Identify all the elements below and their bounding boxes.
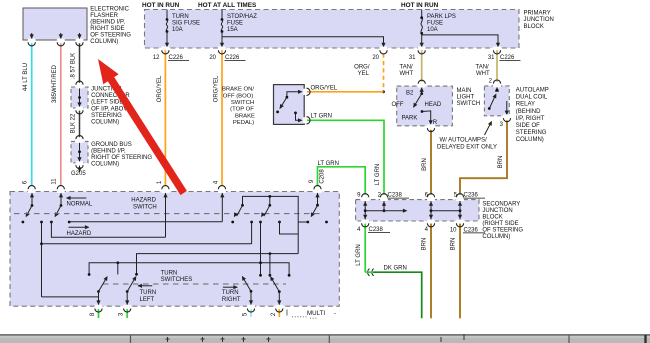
label HAZARD SWITCH: [131, 198, 156, 211]
label TURN LEFT with left arrow: [137, 284, 156, 304]
label AUTOLAMP DUAL COIL RELAY (BEHIND I/P, RIGHT SIDE OF STEERING COLUMN): [516, 88, 549, 144]
hazard pole 1 (entry 6): [22, 193, 43, 224]
hazard mechanical link (dashed): [14, 213, 322, 215]
svg-text:HOT IN RUN: HOT IN RUN: [142, 2, 180, 9]
pin 12 C226 label: [153, 55, 189, 61]
svg-text:PARK LPS: PARK LPS: [427, 14, 456, 20]
svg-text:ORG/YEL: ORG/YEL: [213, 75, 219, 102]
svg-text:SWITCHES: SWITCHES: [161, 277, 193, 283]
svg-text:LT GRN: LT GRN: [375, 164, 381, 185]
svg-text:31: 31: [488, 55, 495, 61]
svg-text:-: -: [334, 310, 336, 317]
svg-text:LIGHT: LIGHT: [457, 95, 475, 101]
power distribution box (fuse box, dashed): [145, 10, 520, 49]
svg-text:COLUMN): COLUMN): [90, 39, 118, 45]
svg-text:I/P, RIGHT: I/P, RIGHT: [516, 116, 545, 122]
svg-text:HAZARD: HAZARD: [131, 198, 156, 204]
svg-text:PRIMARY: PRIMARY: [524, 11, 551, 17]
svg-text:HOT IN RUN: HOT IN RUN: [401, 2, 439, 9]
label LT GRN (BOO output): [311, 114, 332, 120]
tiny wire-top marks on strip: [166, 334, 465, 342]
svg-text:G205: G205: [71, 171, 86, 177]
svg-text:12: 12: [153, 55, 160, 61]
svg-text:C238: C238: [388, 193, 403, 199]
svg-text:TURN: TURN: [140, 290, 157, 296]
hazard line C and feed to turn-left pivot: [40, 222, 252, 297]
wire ORG/YEL (circuit 20) vertical: [221, 50, 223, 185]
label TAN/ WHT (left): [400, 65, 414, 78]
svg-text:TURN: TURN: [172, 14, 189, 20]
svg-text:FLASHER: FLASHER: [90, 13, 118, 19]
svg-text:STEERING: STEERING: [91, 113, 122, 119]
svg-text:HAZARD: HAZARD: [67, 231, 92, 237]
label BRN (rot, left bottom): [422, 238, 428, 251]
svg-text:(TOP OF: (TOP OF: [230, 107, 254, 113]
label DK GRN: [384, 266, 407, 272]
pin 31 label (park lps drop): [409, 55, 416, 61]
label 2 (rot): [271, 312, 277, 316]
svg-text:C226: C226: [169, 55, 184, 61]
svg-text:4: 4: [357, 227, 361, 233]
electronic flasher box: [23, 8, 87, 40]
svg-text:COLUMN): COLUMN): [482, 234, 510, 240]
wire .8 57 BLK (flasher to junction connector): [79, 43, 81, 83]
label MAIN LIGHT SWITCH: [457, 88, 481, 107]
svg-text:COLUMN): COLUMN): [91, 120, 119, 126]
label 3 (autolamp pin): [500, 122, 504, 128]
label 10 C236 (bottom): [450, 227, 485, 233]
svg-text:5: 5: [243, 312, 249, 316]
connector cups with border gaps: [28, 39, 511, 313]
wire ORG/YEL dashed drop to BOO output: [382, 54, 385, 94]
svg-text:LEFT: LEFT: [140, 297, 155, 303]
svg-text:GROUND BUS: GROUND BUS: [91, 142, 132, 148]
wire TAN/WHT to autolamp relay: [496, 50, 498, 81]
svg-text:RIGHT OF STEERING: RIGHT OF STEERING: [91, 155, 152, 161]
wire ORG/YEL from BOO output to dashed drop: [307, 91, 384, 93]
wire 44 LT BLU vertical: [31, 43, 33, 185]
svg-text:STEERING: STEERING: [516, 130, 547, 136]
label NORMAL with left arrow: [66, 196, 93, 207]
label TAN/ WHT (right): [476, 65, 490, 78]
wire TAN/WHT to main light switch: [421, 50, 423, 82]
brake on/off (BOO) switch box: [274, 85, 305, 125]
svg-text:BRAKE ON/: BRAKE ON/: [222, 87, 254, 93]
svg-text:10A: 10A: [172, 27, 183, 33]
svg-text:W/ AUTOLAMPS/: W/ AUTOLAMPS/: [440, 137, 488, 143]
svg-text:B2: B2: [406, 91, 414, 97]
wire DK GRN stub (pin 3): [126, 309, 128, 318]
label C208 (rot): [319, 169, 325, 184]
label 1 (rot, entry): [157, 180, 163, 184]
exit cups at multifunction switch bottom: [0, 0, 1, 1]
svg-text:YEL: YEL: [358, 71, 370, 77]
svg-text:AUTOLAMP: AUTOLAMP: [516, 88, 549, 94]
label JUNCTION CONNECTOR (LEFT SIDE OF I/P, ABOVE STEERING COLUMN): [91, 87, 131, 126]
svg-text:WHT: WHT: [476, 71, 490, 77]
svg-text:BLOCK: BLOCK: [482, 215, 502, 221]
svg-text:ORG/YEL: ORG/YEL: [157, 75, 163, 102]
svg-text:TURN: TURN: [161, 270, 178, 276]
label 4 (rot, entry): [214, 180, 220, 184]
label 6 (rot, entry): [23, 180, 29, 184]
svg-text:PEDAL): PEDAL): [233, 120, 254, 126]
label 4 (C236 bottom): [425, 227, 429, 233]
svg-text:WHT: WHT: [400, 71, 414, 77]
svg-text:(BEHIND I/P,: (BEHIND I/P,: [90, 19, 125, 25]
svg-text:OF STEERING: OF STEERING: [482, 228, 523, 234]
ground G205: [71, 166, 86, 178]
turn switch mechanical link (dashed): [103, 283, 286, 285]
wire BRN main light switch R to C238 pin 6: [430, 130, 432, 195]
svg-text:ELECTRONIC: ELECTRONIC: [90, 6, 129, 12]
svg-text:LT GRN: LT GRN: [311, 114, 332, 120]
svg-text:9: 9: [309, 179, 315, 183]
label 6 (C236 top): [425, 193, 429, 199]
svg-text:SWITCH: SWITCH: [457, 101, 481, 107]
wire BLK 22 (junction connector to ground bus): [79, 111, 81, 138]
wire LT GRN from C238 pin 4 down: [364, 224, 366, 273]
svg-text:SIDE OF: SIDE OF: [516, 123, 540, 129]
svg-text:BRN: BRN: [498, 156, 504, 169]
svg-text:LT GRN: LT GRN: [356, 244, 362, 265]
svg-text:RELAY: RELAY: [516, 102, 535, 108]
svg-text:TAN/: TAN/: [400, 65, 414, 71]
label 44 LT BLU (rot): [23, 63, 29, 91]
svg-text:STOP/HAZ: STOP/HAZ: [227, 14, 257, 20]
label MULTI-FUNCTION SWITCH (clipped): [287, 310, 336, 319]
svg-text:HOT AT ALL TIMES: HOT AT ALL TIMES: [198, 2, 257, 9]
svg-text:ORG/YEL: ORG/YEL: [311, 85, 338, 91]
svg-text:2: 2: [489, 78, 493, 84]
label HOT AT ALL TIMES: [198, 2, 257, 9]
label HOT IN RUN (left): [142, 2, 180, 9]
svg-text:385WHT/RED: 385WHT/RED: [52, 64, 58, 103]
svg-text:RIGHT SIDE: RIGHT SIDE: [90, 26, 124, 32]
wire ORG stub (pin 2): [278, 309, 280, 317]
wire BRN autolamp pin3 to C236 pin 5: [460, 120, 507, 194]
junction connector box: [71, 87, 88, 108]
svg-text:RIGHT: RIGHT: [222, 297, 241, 303]
wire DK GRN to bottom: [365, 272, 422, 318]
svg-text:ORG/: ORG/: [354, 65, 370, 71]
svg-text:31: 31: [409, 55, 416, 61]
svg-text:4: 4: [425, 227, 429, 233]
label LT GRN (rot, at C238 pin 2): [375, 164, 381, 185]
svg-text:3: 3: [500, 122, 504, 128]
ground bus box: [71, 141, 88, 162]
svg-text:JUNCTION: JUNCTION: [524, 17, 554, 23]
svg-text:LT GRN: LT GRN: [318, 161, 339, 167]
hazard pole 3: [231, 196, 298, 253]
svg-text:8: 8: [90, 312, 96, 316]
fuse TURN SIG FUSE 10A: [165, 10, 200, 48]
label BRAKE ON/ OFF (BOO) SWITCH (TOP OF BRAKE PEDAL): [222, 87, 255, 127]
svg-text:SECONDARY: SECONDARY: [482, 202, 520, 208]
svg-text:3: 3: [119, 312, 125, 316]
wire ORG/YEL (circuit 12) vertical: [164, 50, 166, 185]
wire 385 WHT/RED vertical: [60, 43, 62, 185]
label ORG/YEL (rot, circuit 20): [213, 75, 219, 102]
label 385WHT/RED (rot): [52, 64, 58, 103]
svg-text:6: 6: [23, 180, 29, 184]
label 8 (rot): [90, 312, 96, 316]
svg-text:JUNCTION: JUNCTION: [482, 208, 512, 214]
label 5 C236 (top): [454, 193, 485, 199]
line D (lamp feed): [135, 252, 298, 276]
wire BRN from C236 pin 4 to bottom: [430, 224, 432, 319]
svg-text:DK GRN: DK GRN: [384, 266, 407, 272]
svg-text:COLUMN): COLUMN): [91, 162, 119, 168]
svg-text:BLK 22: BLK 22: [71, 113, 77, 133]
label 2 (autolamp pin): [489, 78, 493, 84]
svg-text:FUSE: FUSE: [227, 21, 243, 27]
label GROUND BUS (BEHIND I/P, RIGHT OF STEERING COLUMN): [91, 142, 152, 168]
svg-text:11: 11: [52, 178, 58, 185]
svg-text:9: 9: [357, 193, 361, 199]
wire entry 1 to hazard feed line B: [51, 193, 167, 238]
svg-text:15A: 15A: [227, 27, 238, 33]
autolamp dual coil relay box: [484, 86, 509, 116]
multifunction switch box: [10, 192, 339, 307]
label 2 C238 (top): [378, 193, 409, 199]
pin 31 C226 label: [488, 55, 521, 61]
svg-text:(LEFT SIDE: (LEFT SIDE: [91, 100, 123, 106]
svg-text:HEAD: HEAD: [425, 102, 442, 108]
inline connector on green wire: [368, 269, 374, 276]
svg-text:10: 10: [450, 227, 457, 233]
label BRN (rot, autolamp drop): [498, 156, 504, 169]
svg-text:MAIN: MAIN: [457, 88, 472, 94]
main light switch box: [392, 86, 453, 126]
svg-text:20: 20: [209, 55, 216, 61]
svg-text:BRN: BRN: [422, 238, 428, 251]
turn switch left 2: [125, 275, 138, 305]
svg-text:C226: C226: [225, 55, 240, 61]
fuse PARK LPS FUSE 10A: [420, 10, 456, 48]
label BRN (rot, right bottom): [450, 238, 456, 251]
hazard pole 5 (entry 9, green): [298, 193, 328, 224]
svg-text:C236: C236: [464, 193, 479, 199]
wire LT GRN stub (pin 8): [98, 309, 100, 318]
svg-text:BRAKE: BRAKE: [235, 113, 255, 119]
svg-text:10A: 10A: [427, 27, 438, 33]
label HOT IN RUN (right): [401, 2, 439, 9]
svg-text:C238: C238: [369, 227, 384, 233]
wire entry 4 to line A: [69, 193, 224, 222]
label BLK 22 (rot): [71, 113, 77, 133]
wire LT GRN from multifunction switch C208 pin 9 to C238 pin 9: [318, 167, 366, 195]
label SECONDARY JUNCTION BLOCK (RIGHT SIDE OF STEERING COLUMN): [482, 202, 523, 241]
label TURN SWITCHES: [161, 270, 193, 283]
svg-text:TAN/: TAN/: [476, 65, 490, 71]
connector cups at fuse box exits: [0, 0, 1, 1]
label LT GRN (horizontal, C208 run): [318, 161, 339, 167]
svg-text:OF STEERING: OF STEERING: [90, 32, 131, 38]
svg-text:1: 1: [157, 180, 163, 184]
label PRIMARY JUNCTION BLOCK: [524, 11, 554, 30]
secondary junction block box: [356, 200, 479, 221]
svg-text:DUAL COIL: DUAL COIL: [516, 95, 548, 101]
svg-text:OFF: OFF: [392, 102, 404, 108]
turn switch right 2: [268, 275, 281, 305]
svg-text:C208: C208: [319, 169, 325, 184]
svg-text:SWITCH: SWITCH: [133, 204, 157, 210]
pin 20 label (dashed org/yel drop): [372, 55, 379, 61]
svg-text:BLOCK: BLOCK: [524, 24, 544, 30]
svg-text:BRN: BRN: [422, 158, 428, 171]
svg-text:(BEHIND: (BEHIND: [516, 109, 541, 115]
hazard pole 4: [259, 195, 298, 275]
svg-text:DELAYED EXIT ONLY: DELAYED EXIT ONLY: [437, 144, 497, 150]
label ORG/YEL (BOO output): [311, 85, 338, 91]
svg-text:TURN: TURN: [222, 290, 239, 296]
svg-text:MULTI: MULTI: [307, 310, 325, 317]
label 9 (rot, C208): [309, 179, 315, 183]
bottom window strip: [0, 335, 650, 343]
label ORG/ YEL (two lines, dashed drop): [354, 65, 370, 78]
svg-text:FUSE: FUSE: [427, 21, 443, 27]
label LT GRN (rot, below SJB): [356, 244, 362, 265]
label 9 (C238 top): [357, 193, 361, 199]
label HAZARD with right arrow: [67, 225, 92, 237]
svg-text:COLUMN): COLUMN): [516, 137, 544, 143]
svg-text:SWITCH: SWITCH: [231, 100, 254, 106]
svg-text:.8 57 BLK: .8 57 BLK: [71, 53, 77, 79]
svg-text:(BEHIND I/P,: (BEHIND I/P,: [91, 149, 126, 155]
svg-text:4: 4: [214, 180, 220, 184]
note W/ AUTOLAMPS/ DELAYED EXIT ONLY with pointer arrow: [437, 120, 497, 150]
svg-text:SIG FUSE: SIG FUSE: [172, 21, 200, 27]
turn switch right 1: [240, 275, 253, 305]
label 11 (rot, entry): [52, 178, 58, 185]
svg-text:PARK: PARK: [402, 116, 418, 122]
svg-text:C236: C236: [464, 227, 479, 233]
label BRN (rot, mls drop): [422, 158, 428, 171]
label ORG/YEL (rot, circuit 12): [157, 75, 163, 102]
svg-text:(RIGHT SIDE: (RIGHT SIDE: [482, 221, 518, 227]
svg-text:OFF (BOO): OFF (BOO): [223, 93, 253, 99]
wire branch from park lps fuse to right tan drop: [422, 35, 500, 47]
hazard pole 2 (entry 11): [50, 193, 71, 224]
label TURN RIGHT with right arrow: [222, 285, 241, 303]
wire branch from stop/haz fuse to ORG/YEL drop: [222, 37, 386, 48]
line E (turn contacts bus): [88, 261, 291, 276]
svg-text:NORMAL: NORMAL: [67, 201, 93, 207]
label 4 C238 (bottom): [357, 227, 390, 233]
pin 20 C226 label: [209, 55, 245, 61]
svg-text:44 LT BLU: 44 LT BLU: [23, 63, 29, 91]
wire LT BLU stub (pin 5): [250, 309, 252, 317]
label .8 57 BLK (rot): [71, 53, 77, 79]
red annotation arrow pointing to electronic flasher: [98, 59, 187, 195]
wire LT GRN from BOO to C238 pin 2: [307, 120, 384, 194]
svg-text:20: 20: [372, 55, 379, 61]
svg-text:C226: C226: [500, 55, 515, 61]
wire BRN from C236 pin 10 to bottom: [459, 224, 461, 319]
svg-text:2: 2: [271, 312, 277, 316]
label 5 (rot): [243, 312, 249, 316]
svg-text:BRN: BRN: [450, 238, 456, 251]
label 3 (rot): [119, 312, 125, 316]
turn switch left 1: [96, 275, 109, 305]
fuse STOP/HAZ FUSE 15A: [220, 10, 257, 48]
label ELECTRONIC FLASHER (BEHIND I/P, RIGHT SIDE OF STEERING COLUMN): [90, 6, 131, 45]
